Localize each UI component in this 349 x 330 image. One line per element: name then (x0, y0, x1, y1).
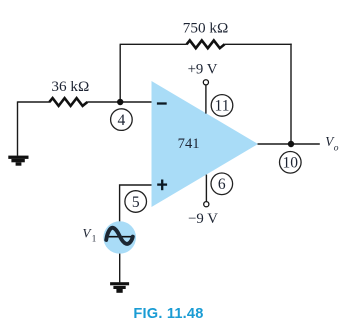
pin 10 label (280, 152, 302, 174)
wire feedback vertical left (119, 44, 121, 102)
wire input right segment to inverting input (87, 101, 151, 103)
wire feedback top left segment (120, 43, 187, 45)
source V1 (AC) (103, 221, 136, 254)
resistor R1 36 kOhm zigzag (49, 98, 87, 106)
svg-text:36 kΩ: 36 kΩ (51, 78, 89, 95)
op-amp non-inverting input marker (plus) (157, 180, 167, 191)
resistor R2 750 kOhm zigzag (187, 40, 225, 48)
wire +9V supply to op-amp top (205, 85, 207, 113)
svg-text:1: 1 (92, 233, 97, 243)
wire feedback top right segment (224, 43, 291, 45)
wire output (258, 143, 320, 145)
pin 4 label (111, 109, 133, 131)
svg-text:FIG. 11.48: FIG. 11.48 (133, 306, 203, 322)
pin 6 label (211, 173, 233, 195)
svg-text:11: 11 (215, 98, 230, 115)
node junction at inverting input (117, 99, 123, 105)
svg-text:5: 5 (132, 194, 140, 211)
svg-text:10: 10 (283, 155, 299, 172)
ground (left) (8, 156, 28, 166)
wire non-inverting input to source (120, 185, 152, 222)
wire feedback vertical right (290, 44, 292, 144)
node output junction (288, 141, 294, 147)
op-amp U1 (741 body) (152, 81, 259, 207)
svg-text:−9 V: −9 V (188, 211, 218, 227)
pin 11 label (211, 95, 233, 117)
svg-text:741: 741 (178, 136, 200, 152)
ground (bottom) (110, 282, 129, 293)
terminal -9 V (204, 202, 209, 207)
svg-text:750 kΩ: 750 kΩ (183, 19, 228, 36)
terminal +9 V (203, 80, 208, 85)
svg-text:4: 4 (118, 112, 126, 129)
wire left vertical to ground (17, 101, 19, 155)
wire -9V supply from op-amp bottom (205, 175, 207, 202)
svg-text:6: 6 (218, 176, 226, 193)
op-amp inverting input marker (minus) (157, 102, 167, 104)
svg-text:+9 V: +9 V (188, 62, 218, 78)
svg-text:o: o (334, 143, 339, 153)
wire source to ground (119, 254, 121, 283)
pin 5 label (125, 191, 147, 213)
wire input left segment (18, 101, 51, 103)
